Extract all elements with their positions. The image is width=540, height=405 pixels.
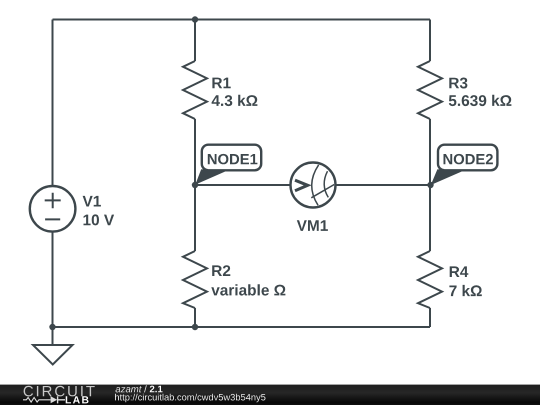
wire bottom rail xyxy=(53,326,431,328)
node NODE1 callout xyxy=(195,145,261,185)
R4 label xyxy=(450,266,469,277)
V1 label xyxy=(83,196,101,207)
wire R4 bottom lead xyxy=(429,308,431,327)
wire left branch V1 xyxy=(52,20,54,346)
wire R3-R4 xyxy=(429,119,431,251)
node junction top xyxy=(192,16,198,22)
resistor R3 xyxy=(418,61,442,119)
footer credit azamt / 2.1 xyxy=(116,385,163,392)
voltmeter VM1 xyxy=(291,163,336,208)
resistor R1 xyxy=(183,61,207,119)
wire R3 top lead xyxy=(429,20,431,62)
R3 label xyxy=(449,78,467,89)
logo resistor zigzag xyxy=(23,398,51,403)
wire R1-R2 xyxy=(194,119,196,251)
node ground junction xyxy=(49,324,55,330)
node NODE1 junction xyxy=(192,182,198,188)
R4 value xyxy=(449,285,481,296)
resistor R4 xyxy=(418,251,442,308)
resistor R2 xyxy=(183,251,207,308)
node NODE2 callout xyxy=(431,145,498,185)
logo LAB xyxy=(66,396,89,403)
footer url xyxy=(115,394,266,403)
ground xyxy=(33,345,73,365)
node NODE2 junction xyxy=(427,182,433,188)
wire R1 top lead xyxy=(194,20,196,62)
R1 value xyxy=(212,95,258,106)
R2 value xyxy=(211,284,285,295)
CircuitLab logo CIRCUIT xyxy=(24,386,95,397)
footer bar xyxy=(0,384,540,405)
logo diode xyxy=(51,396,58,403)
wire middle rail NODE1-NODE2 xyxy=(195,184,430,186)
R3 value xyxy=(449,95,512,106)
wire R2 bottom lead xyxy=(194,308,196,327)
voltage source V1 xyxy=(30,186,76,232)
V1 value 10 V xyxy=(84,214,115,225)
wire top rail xyxy=(53,19,431,21)
R2 label xyxy=(212,265,230,276)
VM1 label xyxy=(297,220,328,231)
R1 label xyxy=(212,78,230,89)
node R2 bottom junction xyxy=(192,324,198,330)
